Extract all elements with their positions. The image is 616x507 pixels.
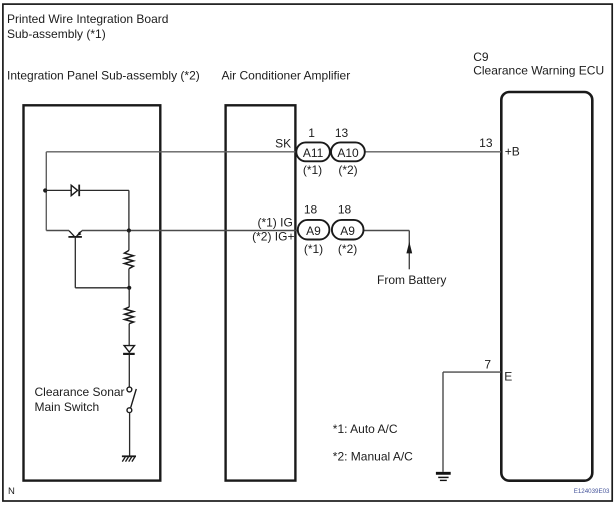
wire: node to resistor R2 <box>128 288 130 307</box>
wire: SK net horizontal (left box to connector A11) <box>46 151 296 153</box>
wire: R1 to node <box>128 269 130 288</box>
diode D2 (cathode down) <box>123 346 135 354</box>
svg-text:E: E <box>504 370 512 384</box>
svg-text:13: 13 <box>479 136 493 150</box>
svg-text:N: N <box>8 486 15 497</box>
wire: transistor base down <box>74 238 76 288</box>
wire: IG net left segment <box>46 230 69 232</box>
svg-text:Air Conditioner Amplifier: Air Conditioner Amplifier <box>222 68 351 82</box>
connector A9 (*1) <box>298 220 330 240</box>
svg-text:A9: A9 <box>306 224 321 238</box>
svg-text:A10: A10 <box>337 146 359 160</box>
diode D1 <box>71 185 79 197</box>
wire: A10 to ECU pin 13 <box>365 151 501 153</box>
svg-text:(*1): (*1) <box>304 242 323 256</box>
svg-text:18: 18 <box>304 202 318 216</box>
svg-text:E124039E03: E124039E03 <box>574 488 610 495</box>
wire: diode branch down to IG net <box>128 190 130 230</box>
svg-text:13: 13 <box>335 126 349 140</box>
svg-text:(*1) IG: (*1) IG <box>257 216 292 230</box>
wire: ECU pin E to ground <box>443 371 501 373</box>
wire: base to resistor node <box>75 287 129 289</box>
svg-text:Sub-assembly (*1): Sub-assembly (*1) <box>7 27 106 41</box>
node: junction dot below R1 <box>127 286 131 290</box>
wire: diode branch left <box>45 189 71 191</box>
wire: diode branch right <box>79 189 129 191</box>
svg-text:7: 7 <box>484 358 491 372</box>
svg-text:A9: A9 <box>340 224 355 238</box>
svg-text:A11: A11 <box>303 146 324 160</box>
wire: switch to ground <box>129 413 131 457</box>
node: junction dot on diode branch <box>43 188 47 192</box>
box: Air Conditioner Amplifier <box>226 105 296 480</box>
connector A10 <box>331 142 365 161</box>
svg-text:*2: Manual A/C: *2: Manual A/C <box>333 449 413 463</box>
svg-text:C9: C9 <box>473 50 489 64</box>
svg-text:Integration Panel Sub-assembly: Integration Panel Sub-assembly (*2) <box>7 68 200 82</box>
box: Integration Panel Sub-assembly <box>24 105 161 480</box>
svg-text:18: 18 <box>338 202 352 216</box>
svg-text:Printed Wire Integration Board: Printed Wire Integration Board <box>7 12 168 26</box>
svg-text:+B: +B <box>505 144 520 158</box>
resistor R2 <box>125 307 134 324</box>
node: junction dot on IG net <box>127 228 131 232</box>
wire: IG net right segment to A9 <box>82 230 298 232</box>
label: Printed Wire Integration Board Sub-assembly (*1) <box>7 12 168 41</box>
label: Clearance Sonar Main Switch <box>35 385 125 414</box>
connector A11 <box>296 142 330 161</box>
svg-text:Clearance Warning ECU: Clearance Warning ECU <box>473 64 604 78</box>
svg-text:1: 1 <box>308 126 315 140</box>
svg-text:From Battery: From Battery <box>377 273 446 287</box>
wire: R2 to diode D2 <box>128 324 130 346</box>
connector A9 (*2) <box>332 220 364 240</box>
wire: vertical branch inside left box <box>45 152 47 231</box>
wire: D2 to switch <box>128 355 130 387</box>
wire: battery vertical <box>408 231 410 270</box>
switch SW1: Clearance Sonar Main Switch <box>127 387 136 413</box>
transistor Q1 <box>68 231 82 237</box>
ground: chassis ground (left) <box>122 456 136 461</box>
ground: earth ground (right) <box>436 473 451 480</box>
svg-text:*1: Auto A/C: *1: Auto A/C <box>333 422 398 436</box>
svg-text:SK: SK <box>275 137 291 151</box>
svg-text:(*2): (*2) <box>338 163 357 177</box>
svg-text:Main Switch: Main Switch <box>35 400 100 414</box>
wire: A9 to battery drop <box>364 230 410 232</box>
box: Clearance Warning ECU U1 <box>501 92 592 481</box>
svg-text:(*1): (*1) <box>303 163 322 177</box>
label: C9 Clearance Warning ECU <box>473 50 604 78</box>
wire: node to resistor R1 <box>128 231 130 251</box>
svg-text:(*2): (*2) <box>338 242 357 256</box>
wire: ground drop vertical <box>442 372 444 472</box>
arrow: from battery (points up) <box>406 242 412 254</box>
resistor R1 <box>124 250 133 268</box>
svg-text:Clearance Sonar: Clearance Sonar <box>35 385 125 399</box>
svg-text:(*2) IG+: (*2) IG+ <box>252 229 294 243</box>
